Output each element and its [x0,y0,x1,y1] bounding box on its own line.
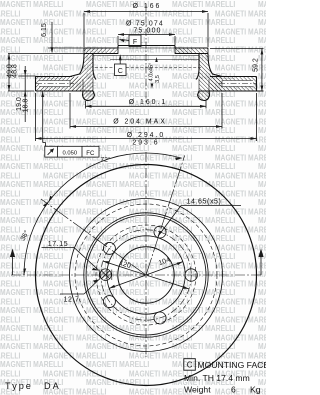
set screw hole hatched [100,269,112,281]
friction ring left section [36,77,82,92]
feature control frame [45,146,99,157]
friction ring right section [211,77,257,92]
O166 arrows [84,10,90,13]
hole chamfer circle dashed [96,225,196,325]
horizontal centerline front view [11,274,261,276]
dim 6.15 [51,22,53,52]
bolt circle O120 [101,230,191,320]
centerline section view [145,4,147,104]
hat left wall section [80,54,97,80]
bolt holes [185,269,197,281]
svg-text:48.8: 48.8 [12,64,19,78]
6.15 arrow [51,47,54,53]
circle O204 [70,199,223,352]
under flange interior lines [93,55,199,57]
svg-text:Type: Type [5,381,33,391]
pilot boss raised [118,45,175,47]
section direction arrows [10,249,15,258]
svg-text:Ø 204 MAX: Ø 204 MAX [113,118,167,125]
svg-text:6: 6 [231,385,236,395]
C leader arrow [119,54,122,60]
circle O166 [84,213,208,337]
vane circle dashed [75,204,217,346]
bottom right block [5,359,269,395]
svg-text:C: C [118,68,123,75]
dim O104 diagonal [109,262,183,289]
svg-text:12.7: 12.7 [63,297,79,304]
svg-text:FC: FC [86,151,95,157]
49.0 arrows [8,54,11,60]
svg-text:293.6: 293.6 [132,139,159,146]
svg-text:Ø 294.0: Ø 294.0 [127,132,166,139]
O104 diag arrows [109,285,115,289]
svg-text:6.15: 6.15 [41,23,48,37]
svg-text:Min. TH 17.4 mm: Min. TH 17.4 mm [184,373,250,383]
hat right wall section [196,54,213,80]
36 deg arc arrows [23,268,26,275]
svg-text:Kg: Kg [250,385,261,395]
leader 14.65(x5) [181,205,241,207]
svg-text:18.8: 18.8 [23,99,30,113]
svg-text:0.050: 0.050 [63,151,78,157]
dimension O166 [84,11,208,13]
svg-text:F: F [133,39,137,46]
svg-text:72°: 72° [100,155,111,163]
19.0 arrows [41,91,44,97]
59.2 arrows [261,49,264,55]
svg-text:14.65(x5): 14.65(x5) [187,199,222,206]
FCF runout symbol arrowhead [50,149,54,153]
svg-text:MOUNTING FACE: MOUNTING FACE [198,360,267,370]
36 deg arc [24,202,49,275]
center bore O75 [118,247,174,303]
datum C box [119,57,121,65]
F leader arrow [119,39,125,42]
hat flange section [84,48,118,54]
svg-text:75.000: 75.000 [133,27,161,34]
72 deg arc arrows [49,196,53,202]
dim O160.1 [85,101,87,109]
radial dash-dot lines [146,155,185,275]
O160.1 arrows [86,105,92,108]
svg-text:DA: DA [44,381,61,391]
vent centerline right [219,83,256,85]
svg-text:Ø 166: Ø 166 [133,3,162,10]
chamfer dim arrows [151,84,154,89]
dim 59.2 [210,48,264,50]
svg-text:C: C [187,361,193,370]
dim 49.0/48.8 [8,54,10,92]
outer circle O294 [36,165,257,386]
svg-text:59.2: 59.2 [253,58,260,72]
O294 arrows [36,137,42,140]
O204 arrows [70,125,76,128]
dimension O75.074/75.000 [118,34,175,36]
hidden interior dashed line [95,67,115,69]
section view direction arrows [12,257,14,275]
O120 diag arrows [103,261,109,264]
svg-text:4.0x45°: 4.0x45° [149,63,155,82]
svg-text:Weight: Weight [184,385,211,395]
circle O160.1 [86,215,206,335]
leader 12.7 [60,293,84,295]
leader 17.15 [42,247,75,249]
dim O120 diagonal [103,261,189,289]
dim O294.0/293.6 [35,93,37,141]
svg-text:17.15: 17.15 [48,241,69,248]
dim 19.0/18.8 + FCF leader [42,91,44,139]
12.7 leader arrow [93,280,99,283]
17.15 leader arrow [92,268,99,271]
72 deg arc [49,153,182,202]
dim O204 MAX [69,93,71,129]
vertical centerline front view [145,152,147,357]
svg-text:3,5: 3,5 [155,75,161,83]
datum F box [129,35,141,47]
vent centerline left [36,83,74,85]
circle O104 [107,236,185,314]
O75 arrows [118,33,124,36]
14.65 leader arrow [158,231,162,237]
svg-text:Ø 160.1: Ø 160.1 [129,99,168,106]
mounting face extension line [8,53,84,55]
